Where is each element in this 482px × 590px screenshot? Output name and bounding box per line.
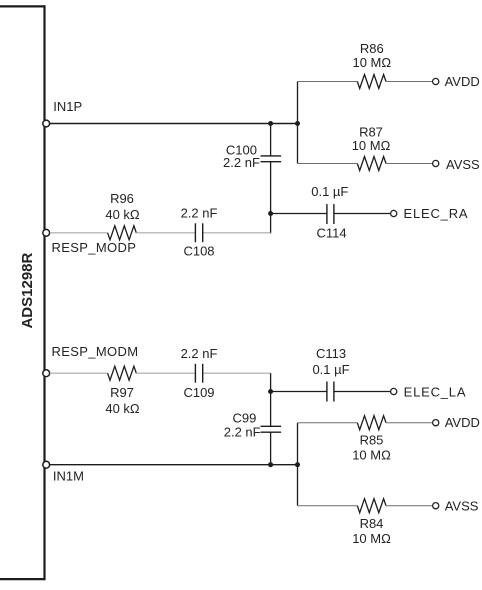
svg-text:10 MΩ: 10 MΩ [352,447,391,462]
resistor R84 [357,499,386,513]
junction dot ELEC_LA branch [268,389,273,394]
pin IN1P [43,120,50,127]
resistor R85 [357,416,386,430]
svg-text:C113: C113 [316,346,346,361]
terminal ELEC_RA [391,210,397,216]
svg-text:AVDD: AVDD [445,74,480,89]
wire ELEC_RA right segment [334,213,391,215]
wire R85 row right stub [386,422,432,424]
wire RESP_MODM middle segment [136,372,195,374]
svg-text:IN1M: IN1M [53,468,84,483]
svg-text:AVDD: AVDD [445,415,480,430]
wire R86 row right stub [386,81,432,83]
svg-text:R86: R86 [360,41,384,56]
wire vertical branch to R86/R87 [297,82,299,164]
svg-text:AVSS: AVSS [446,157,480,172]
wire R84 row left stub [298,505,358,507]
svg-text:C99: C99 [233,410,257,425]
wire vertical branch to R85/R84 [297,423,299,506]
capacitor C108 [195,223,202,242]
wire RESP_MODP left segment [50,232,108,234]
wire R84 row right stub [386,505,432,507]
resistor R97 [108,366,137,380]
capacitor C109 [195,364,202,383]
wire RESP_MODM right segment [203,372,271,374]
wire IN1M horizontal [50,464,298,466]
wire ELEC_LA left segment [271,391,327,393]
wire ELEC_RA left segment [271,213,327,215]
svg-text:ADS1298R: ADS1298R [19,252,36,328]
wire RESP_MODP right segment [203,232,271,234]
svg-text:40 kΩ: 40 kΩ [105,207,140,222]
svg-text:R97: R97 [110,385,134,400]
wire vertical C100 branch lower segment [270,162,272,234]
svg-text:2.2 nF: 2.2 nF [181,346,218,361]
wire R87 row right stub [386,163,432,165]
svg-text:0.1 µF: 0.1 µF [312,362,349,377]
terminal AVSS (bottom) [433,503,439,509]
svg-text:C109: C109 [183,385,214,400]
svg-text:AVSS: AVSS [445,498,479,513]
svg-text:2.2 nF: 2.2 nF [224,424,261,439]
svg-text:10 MΩ: 10 MΩ [352,138,391,153]
svg-text:2.2 nF: 2.2 nF [181,206,218,221]
wire IN1P horizontal [50,123,298,125]
wire ELEC_LA right segment [334,391,391,393]
svg-text:RESP_MODP: RESP_MODP [52,240,137,255]
pin RESP_MODM [43,370,50,377]
junction dot IN1P / R86-R87 branch [295,121,300,126]
pin RESP_MODP [43,229,50,236]
svg-text:ELEC_RA: ELEC_RA [404,206,469,221]
svg-text:10 MΩ: 10 MΩ [352,531,391,546]
capacitor C113 [327,382,334,402]
resistor R86 [357,75,386,89]
svg-text:IN1P: IN1P [53,99,82,114]
pin IN1M [43,461,50,468]
resistor R96 [108,226,137,240]
capacitor C114 [327,204,334,224]
wire RESP_MODP middle segment [136,232,195,234]
wire RESP_MODM left segment [50,372,108,374]
svg-text:R96: R96 [110,191,134,206]
wire R86 row left stub [298,81,358,83]
svg-text:C114: C114 [316,226,346,241]
junction dot IN1P / C100 branch [268,121,273,126]
wire vertical C100 branch upper segment [270,124,272,156]
terminal AVSS (top) [433,160,439,166]
svg-text:R85: R85 [360,433,384,448]
svg-text:10 MΩ: 10 MΩ [352,55,391,70]
junction dot C99 / IN1M wire [268,462,273,467]
wire vertical C99 branch lower segment [270,432,272,465]
terminal ELEC_LA [391,388,397,394]
svg-text:RESP_MODM: RESP_MODM [52,344,139,359]
svg-text:R84: R84 [360,516,384,531]
svg-text:40 kΩ: 40 kΩ [105,401,140,416]
IC U1 ADS1298R box [0,5,45,580]
wire R85 row left stub [298,422,358,424]
junction dot IN1M / R85-R84 branch [295,462,300,467]
capacitor C100 [261,156,282,162]
svg-text:2.2 nF: 2.2 nF [223,155,260,170]
wire vertical C99 branch upper segment [270,373,272,426]
capacitor C99 [261,426,282,432]
svg-text:ELEC_LA: ELEC_LA [404,384,467,399]
svg-text:C108: C108 [183,244,214,259]
terminal AVDD (top) [433,78,439,84]
terminal AVDD (bottom) [433,420,439,426]
resistor R87 [357,157,386,171]
wire R87 row left stub [298,163,358,165]
svg-text:0.1 µF: 0.1 µF [311,184,348,199]
junction dot ELEC_RA branch [268,211,273,216]
